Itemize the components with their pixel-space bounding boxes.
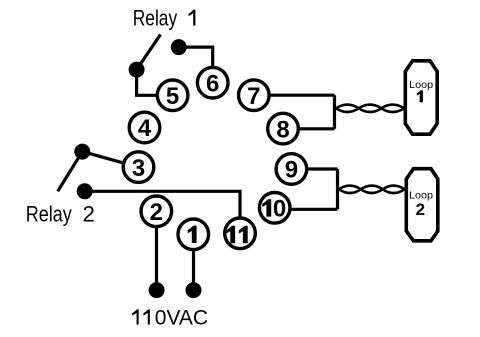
svg-text:7: 7	[247, 83, 260, 110]
svg-text:2: 2	[416, 200, 425, 219]
svg-text:2: 2	[83, 201, 95, 226]
svg-text:Relay: Relay	[26, 201, 72, 226]
svg-text:Relay: Relay	[133, 6, 178, 31]
svg-text:4: 4	[138, 115, 152, 142]
svg-text:9: 9	[285, 157, 298, 184]
svg-text:0: 0	[273, 196, 286, 223]
svg-text:3: 3	[132, 155, 145, 182]
svg-text:8: 8	[276, 116, 289, 143]
svg-text:5: 5	[166, 83, 179, 110]
svg-text:0VAC: 0VAC	[155, 307, 208, 330]
svg-text:6: 6	[206, 70, 219, 97]
svg-text:2: 2	[150, 199, 163, 226]
svg-text:Loop: Loop	[409, 79, 433, 91]
